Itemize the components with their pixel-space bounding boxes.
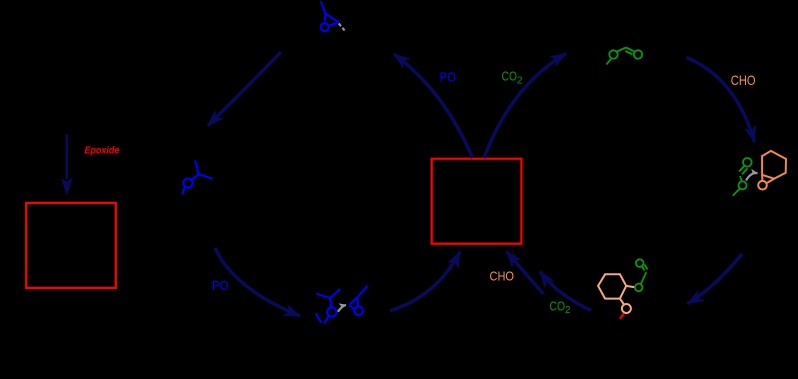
structure S3: isopropoxide + propylene oxide (bottom) xyxy=(316,286,368,324)
S6 formate (green) xyxy=(635,259,648,291)
arc L1: box B to propylene oxide (top), label PO xyxy=(394,54,473,158)
arc R3: adduct to formate product xyxy=(688,254,743,304)
svg-text:Epoxide: Epoxide xyxy=(85,146,120,157)
svg-text:CHO: CHO xyxy=(731,73,756,88)
arc R1: box B to methyl formate, label CO2 xyxy=(484,54,566,159)
S5 curved attack arrow (gray) xyxy=(746,173,758,180)
arc L3: isopropoxide to ring-opened alkoxide, label PO xyxy=(215,248,300,316)
S1 hashed methyl bond xyxy=(339,24,346,32)
structure S6: cyclohexyl formate product (bottom right) xyxy=(598,274,635,313)
arc R4a: product to box B, label CHO xyxy=(507,252,544,295)
structure S5: cyclohexene oxide + formate adduct (top right) xyxy=(758,151,786,190)
svg-text:PO: PO xyxy=(212,278,229,293)
arc R2: methyl formate to epoxide adduct, label CHO xyxy=(687,58,755,143)
structure S4: methyl formate (green) xyxy=(607,48,643,65)
svg-text:CHO: CHO xyxy=(490,269,515,284)
epoxide feed arrow xyxy=(61,135,73,196)
arc R4b: product to box B, label CO2 xyxy=(540,272,591,311)
structure S1: propylene oxide (top) xyxy=(321,1,339,31)
structure S2: isopropoxide xyxy=(182,160,213,194)
svg-text:PO: PO xyxy=(440,70,457,85)
catalyst box B (center) xyxy=(432,159,522,244)
S6 red methoxide stub xyxy=(620,313,624,318)
catalyst box A (left) xyxy=(26,203,116,288)
arc L4: alkoxide to box B xyxy=(390,252,460,312)
S3 curved attack arrow (gray) xyxy=(338,305,346,312)
arc L2: propylene oxide to isopropoxide xyxy=(208,52,281,126)
S5 formate (green) xyxy=(733,158,752,196)
